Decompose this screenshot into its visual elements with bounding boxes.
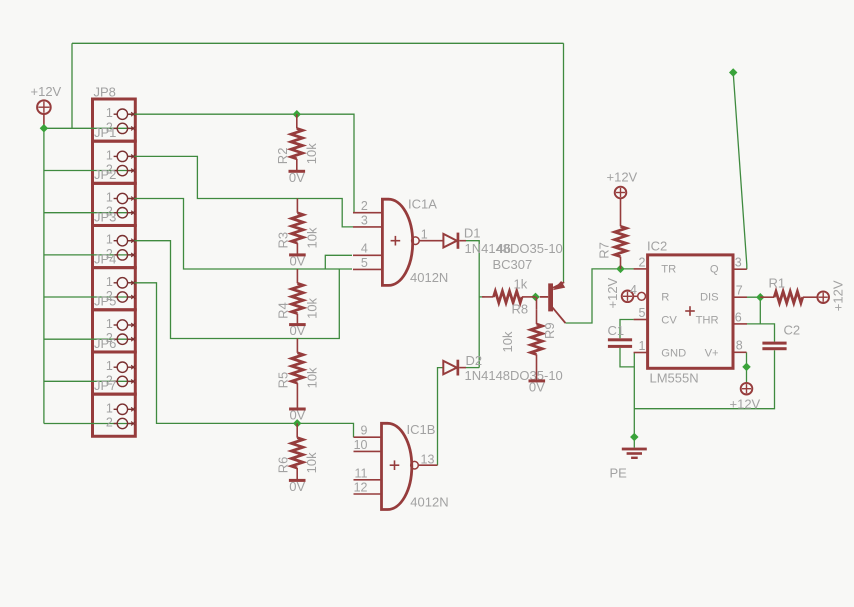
svg-text:THR: THR <box>696 314 719 326</box>
wire +12V rail to JP8 pin 2 <box>44 423 132 425</box>
wire IC2 pin3 Q diagonal to top-right node <box>733 73 747 270</box>
diode D2 <box>443 361 457 374</box>
wire IC2 pin1 GND down to PE <box>633 353 635 448</box>
supply 0V under R3 <box>289 253 306 256</box>
JP8 pin 1 <box>114 408 118 410</box>
svg-text:JP4: JP4 <box>94 252 116 267</box>
svg-text:5: 5 <box>361 256 368 270</box>
svg-text:+12V: +12V <box>831 280 846 311</box>
svg-text:8: 8 <box>736 339 743 353</box>
IC1B pin 12 stub <box>354 493 382 495</box>
IC1B pin 10 stub <box>354 450 382 452</box>
wire IC2 pin8 V+ to +12V <box>746 352 748 383</box>
svg-text:4012N: 4012N <box>410 494 448 509</box>
junction IC2 DIS / R1 / C2 <box>756 293 764 301</box>
IC2 pin 2 stub <box>634 268 648 270</box>
svg-text:R3: R3 <box>276 232 291 249</box>
svg-text:BC307: BC307 <box>493 257 533 272</box>
wire jog up to IC1A pin4 <box>325 255 352 269</box>
svg-text:11: 11 <box>355 466 368 480</box>
wire JP4 pin1 to IC1A pin5 (via R5 node) <box>128 241 339 339</box>
wire +12V top rail left drop <box>71 43 73 128</box>
wire JP2 pin1 to IC1A pin3 <box>128 156 353 227</box>
supply 0V under R6 <box>289 479 306 482</box>
svg-text:R5: R5 <box>276 372 291 389</box>
connector JP2 box <box>93 141 136 183</box>
JP3 pin 1 <box>114 198 118 200</box>
JP5 pin 1 <box>114 282 118 284</box>
svg-text:+12V: +12V <box>31 84 62 99</box>
svg-text:2: 2 <box>106 416 113 430</box>
IC1B plus mark <box>390 464 400 466</box>
connector JP4 box <box>93 226 136 268</box>
IC IC2 LM555N body <box>648 255 733 368</box>
junction +12V rail / JP1 pin2 <box>40 124 48 132</box>
wire +12V left rail vertical <box>43 128 45 423</box>
wire +12V top rail right drop to Q1 emitter <box>563 43 565 282</box>
svg-text:1: 1 <box>106 148 113 162</box>
svg-text:C2: C2 <box>784 323 801 338</box>
JP8 pin 2 <box>114 423 118 425</box>
IC1A output bubble <box>412 237 420 245</box>
svg-text:IC2: IC2 <box>647 239 667 254</box>
svg-text:+12V: +12V <box>605 277 620 308</box>
wire JP3 pin1 to IC1A pin4 (via R4 node) <box>128 199 352 270</box>
svg-text:JP8: JP8 <box>94 85 116 100</box>
svg-text:JP3: JP3 <box>94 209 116 224</box>
IC2 plus mark <box>685 310 695 312</box>
+12V supply symbol top-left <box>37 100 51 114</box>
wire IC1B output to D2 anode <box>438 368 444 466</box>
IC1B pin 11 stub <box>354 479 382 481</box>
wire +12V rail to JP5 pin 2 <box>44 296 132 298</box>
junction R7 / IC2 TR <box>616 265 624 273</box>
wire D1 cathode to R8 and D2 cathode <box>466 241 479 368</box>
svg-text:2: 2 <box>639 255 646 269</box>
svg-text:10: 10 <box>354 438 368 452</box>
svg-text:1: 1 <box>106 401 113 415</box>
wire C1 bottom to GND net <box>620 348 634 367</box>
svg-text:R9: R9 <box>542 322 557 339</box>
connector JP5 box <box>93 268 136 310</box>
wire +12V rail to JP6 pin 2 <box>44 338 132 340</box>
supply 0V under R2 <box>289 170 306 173</box>
wire IC2 pin6 THR to C2 top <box>747 324 775 342</box>
junction JP1 pin1 / R2 top <box>293 110 301 118</box>
svg-text:1: 1 <box>106 106 113 120</box>
junction JP5 net / R6 top <box>293 419 301 427</box>
IC1A pin 3 stub <box>353 226 382 228</box>
wire R8 left lead join <box>479 296 484 298</box>
svg-text:R2: R2 <box>275 148 290 165</box>
svg-text:R4: R4 <box>276 302 291 319</box>
svg-text:PE: PE <box>610 466 628 481</box>
svg-text:TR: TR <box>661 264 676 276</box>
svg-text:DIS: DIS <box>700 291 719 303</box>
svg-text:CV: CV <box>661 314 677 326</box>
svg-text:46: 46 <box>497 241 511 256</box>
svg-text:0V: 0V <box>529 380 545 395</box>
svg-text:1: 1 <box>106 233 113 247</box>
+12V supply right of R1 <box>817 291 829 303</box>
svg-text:JP2: JP2 <box>94 167 116 182</box>
wire IC2 pin5 CV to C1 top <box>620 320 634 339</box>
connector JP7 box <box>93 352 136 394</box>
JP4 pin 2 <box>114 254 118 256</box>
resistor R4 10k <box>296 269 298 283</box>
IC1B output bubble <box>411 461 419 469</box>
svg-text:10k: 10k <box>304 452 319 473</box>
junction R8 / R9 / Q1 base <box>531 293 539 301</box>
svg-text:2: 2 <box>361 199 368 213</box>
svg-text:4012N: 4012N <box>410 270 448 285</box>
svg-text:10k: 10k <box>304 297 319 318</box>
svg-text:4: 4 <box>361 242 368 256</box>
connector JP1 box <box>93 99 136 141</box>
junction IC2 V+ wire <box>742 363 750 371</box>
svg-text:10k: 10k <box>304 227 319 248</box>
svg-text:1: 1 <box>106 359 113 373</box>
capacitor C1 <box>608 338 632 341</box>
+12V supply at IC2 pin 4 <box>622 291 634 303</box>
wire JP1 pin1 to R2 and IC1A pin2 <box>128 114 354 213</box>
svg-text:5: 5 <box>639 306 646 320</box>
transistor Q1 BC307 <box>548 283 553 311</box>
wire D2 cathode join <box>466 367 479 369</box>
IC1A pin 5 stub <box>353 268 382 270</box>
svg-text:D2: D2 <box>466 353 483 368</box>
svg-text:C1: C1 <box>608 323 625 338</box>
ground PE symbol <box>622 448 647 451</box>
IC2 pin 6 stub <box>733 323 747 325</box>
svg-text:10k: 10k <box>304 143 319 164</box>
svg-text:1: 1 <box>106 275 113 289</box>
wire IC2 pin7 DIS to R1 <box>747 296 774 298</box>
svg-text:GND: GND <box>661 348 686 360</box>
IC1B pin 13 output stub <box>418 464 437 466</box>
svg-text:LM555N: LM555N <box>650 371 699 386</box>
JP6 pin 1 <box>114 324 118 326</box>
JP1 pin 1 <box>114 113 118 115</box>
svg-text:R8: R8 <box>512 301 529 316</box>
svg-text:0V: 0V <box>289 170 305 185</box>
JP5 pin 2 <box>114 296 118 298</box>
IC2 pin 3 stub <box>733 268 747 270</box>
wire +12V rail to JP1 pin 2 <box>44 127 132 129</box>
IC1A pin 2 stub <box>353 212 382 214</box>
IC2 pin 1 stub <box>634 352 648 354</box>
JP1 pin 2 <box>114 127 118 129</box>
svg-text:JP7: JP7 <box>94 378 116 393</box>
wire +12V rail to JP4 pin 2 <box>44 254 132 256</box>
svg-text:6: 6 <box>735 310 742 324</box>
svg-text:13: 13 <box>421 452 435 466</box>
IC2 pin 8 stub <box>733 351 747 353</box>
svg-text:4: 4 <box>630 283 637 297</box>
IC2 pin 5 stub <box>634 319 648 321</box>
wire +12V top rail horizontal <box>72 42 564 44</box>
supply 0V under R5 <box>289 408 306 411</box>
svg-text:+12V: +12V <box>730 397 761 412</box>
IC2 pin 7 stub <box>733 296 747 298</box>
svg-text:0V: 0V <box>289 479 305 494</box>
svg-text:Q: Q <box>710 264 719 276</box>
op-amp gate IC1B 4012N body <box>382 423 412 509</box>
resistor R8 1k <box>482 296 494 298</box>
wire +12V rail to JP7 pin 2 <box>44 380 132 382</box>
wire JP5 pin1 to R6 node and IC1B pin9 <box>128 283 354 437</box>
svg-text:10k: 10k <box>500 331 515 352</box>
svg-text:1: 1 <box>106 317 113 331</box>
svg-text:0V: 0V <box>289 408 305 423</box>
resistor R2 10k <box>296 114 298 128</box>
svg-text:3: 3 <box>361 213 368 227</box>
connector JP3 box <box>93 183 136 225</box>
JP3 pin 2 <box>114 212 118 214</box>
JP4 pin 1 <box>114 240 118 242</box>
wire +12V rail to JP3 pin 2 <box>44 212 132 214</box>
svg-text:IC1B: IC1B <box>407 422 436 437</box>
svg-text:1: 1 <box>106 191 113 205</box>
svg-text:+12V: +12V <box>607 170 638 185</box>
svg-text:9: 9 <box>361 424 368 438</box>
resistor R7 <box>620 212 622 226</box>
JP7 pin 1 <box>114 366 118 368</box>
svg-text:10k: 10k <box>304 367 319 388</box>
wire +12V rail to JP2 pin 2 <box>44 170 132 172</box>
wire DIS node down to THR wire <box>759 297 761 324</box>
IC1A pin 4 stub <box>353 254 382 256</box>
IC1A pin 1 output stub <box>419 240 443 242</box>
svg-text:R6: R6 <box>275 457 290 474</box>
wire Q1 collector to IC2 TR <box>565 269 633 323</box>
svg-text:1N4148DO35-10: 1N4148DO35-10 <box>465 241 563 256</box>
svg-text:1k: 1k <box>514 277 528 292</box>
connector JP8 box <box>93 394 136 436</box>
svg-text:3: 3 <box>735 256 742 270</box>
svg-text:D1: D1 <box>464 226 481 241</box>
capacitor C2 <box>762 342 786 345</box>
+12V supply below IC2 pin8 <box>741 383 753 395</box>
resistor R6 10k <box>296 423 298 437</box>
svg-text:1: 1 <box>421 228 428 242</box>
junction PE node <box>630 433 638 441</box>
svg-text:IC1A: IC1A <box>408 197 437 212</box>
svg-text:1: 1 <box>639 339 646 353</box>
resistor R1 <box>760 296 774 298</box>
supply 0V under R4 <box>289 323 306 326</box>
op-amp gate IC1A 4012N body <box>382 199 412 285</box>
supply 0V under R9 <box>529 379 546 382</box>
JP6 pin 2 <box>114 338 118 340</box>
svg-text:1N4148DO35-10: 1N4148DO35-10 <box>465 368 563 383</box>
svg-text:JP6: JP6 <box>94 336 116 351</box>
IC1A plus mark <box>391 240 401 242</box>
wire GND net horizontal to C2 bottom <box>634 350 774 409</box>
svg-text:7: 7 <box>736 284 743 298</box>
svg-text:R7: R7 <box>597 242 612 259</box>
svg-text:12: 12 <box>354 481 368 495</box>
resistor R5 10k <box>296 339 298 353</box>
JP2 pin 2 <box>114 170 118 172</box>
JP2 pin 1 <box>114 155 118 157</box>
JP7 pin 2 <box>114 380 118 382</box>
svg-text:R: R <box>661 291 669 303</box>
svg-text:0V: 0V <box>289 323 305 338</box>
IC2 pin 4 inversion bubble <box>638 292 646 300</box>
diode D1 <box>443 234 457 248</box>
resistor R3 10k <box>296 199 298 213</box>
svg-text:0V: 0V <box>289 254 305 269</box>
svg-text:V+: V+ <box>705 348 719 360</box>
svg-text:JP1: JP1 <box>94 125 116 140</box>
connector JP6 box <box>93 310 136 352</box>
resistor R9 10k <box>536 297 538 310</box>
svg-text:JP5: JP5 <box>94 294 116 309</box>
IC1B pin 9 stub <box>354 436 382 438</box>
junction top-right node of Q output wire <box>729 68 737 76</box>
svg-text:R1: R1 <box>769 276 786 291</box>
+12V supply above R7 <box>615 187 627 199</box>
